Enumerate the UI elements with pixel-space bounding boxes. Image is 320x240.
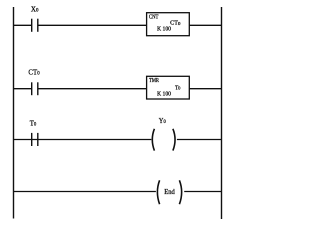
wire rung3 right — [177, 139, 222, 141]
svg-text:CNT: CNT — [149, 14, 159, 20]
wire rung4 right — [184, 191, 221, 193]
svg-text:K 100: K 100 — [157, 92, 171, 98]
coil End — [157, 180, 181, 204]
wire rung4 left — [14, 191, 156, 193]
wire rung2 right — [189, 88, 221, 90]
contact T0 — [32, 133, 38, 146]
wire rung1 left — [14, 24, 32, 26]
svg-text:TMR: TMR — [149, 78, 159, 84]
svg-text:K 100: K 100 — [157, 27, 171, 33]
wire rung3 left — [14, 139, 152, 141]
wire rung2 left — [14, 88, 32, 90]
contact X0 — [32, 19, 38, 32]
counter block CNT — [147, 13, 190, 36]
coil Y0 — [152, 129, 175, 151]
left power rail — [13, 7, 15, 219]
right power rail — [221, 7, 223, 219]
contact CT0 — [32, 82, 38, 95]
wire rung2 middle — [38, 88, 147, 90]
timer block TMR — [147, 76, 190, 99]
wire rung1 right — [189, 24, 221, 26]
svg-text:End: End — [164, 189, 175, 196]
svg-text:CT0: CT0 — [170, 21, 181, 27]
wire rung1 middle — [38, 24, 147, 26]
